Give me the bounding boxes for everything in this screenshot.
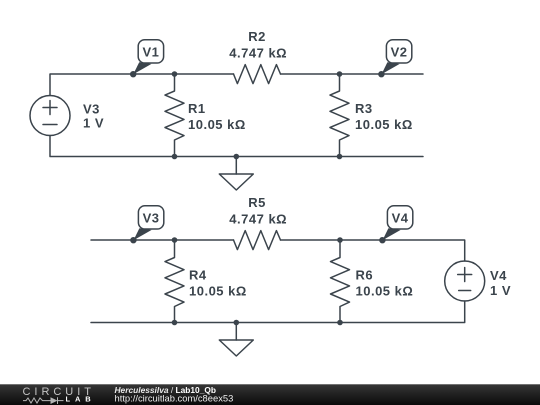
wire top rail left (V3 to R2) <box>50 74 234 96</box>
junction R1 top <box>172 71 178 77</box>
junction ground1 <box>234 154 240 160</box>
wire bottom rail circuit1 <box>50 136 423 157</box>
node V1 dot <box>130 71 136 77</box>
node V4 dot <box>379 237 385 243</box>
ground circuit1 <box>235 157 237 175</box>
resistor R5 <box>234 231 281 250</box>
wire top rail circuit2 left <box>91 239 234 241</box>
svg-text:http://circuitlab.com/c8eex53: http://circuitlab.com/c8eex53 <box>115 392 234 403</box>
node V3 probe flag <box>138 206 163 229</box>
logo diode triangle <box>51 397 58 404</box>
svg-text:R3: R3 <box>355 101 373 116</box>
resistor R3 <box>330 74 349 157</box>
node V2 dot <box>378 71 384 77</box>
svg-text:V1: V1 <box>142 45 159 60</box>
svg-text:10.05 kΩ: 10.05 kΩ <box>356 283 414 298</box>
node V1 probe flag <box>138 40 163 63</box>
junction R4 bottom <box>172 320 178 326</box>
svg-text:LAB: LAB <box>66 395 92 404</box>
ground circuit2 <box>235 323 237 341</box>
svg-text:V4: V4 <box>392 211 409 226</box>
node V3 dot <box>130 237 136 243</box>
svg-text:1 V: 1 V <box>83 115 104 130</box>
logo resistor-diode line <box>23 397 64 404</box>
svg-text:V2: V2 <box>391 45 408 60</box>
node V4 probe flag <box>387 206 412 229</box>
node V3 pointer wedge <box>134 228 152 240</box>
wire bottom rail circuit2 <box>91 301 465 323</box>
junction R4 top <box>172 237 178 243</box>
junction ground2 <box>234 320 240 326</box>
node V2 pointer wedge <box>382 62 400 74</box>
svg-text:V3: V3 <box>143 211 160 226</box>
junction R3 bottom <box>337 154 343 160</box>
junction R6 top <box>337 237 343 243</box>
svg-text:4.747 kΩ: 4.747 kΩ <box>229 211 287 226</box>
svg-text:R5: R5 <box>248 195 266 210</box>
svg-text:R1: R1 <box>188 101 206 116</box>
resistor R2 <box>234 65 281 84</box>
svg-text:R6: R6 <box>356 268 374 283</box>
voltage source V3 <box>30 96 70 136</box>
svg-text:10.05 kΩ: 10.05 kΩ <box>188 117 246 132</box>
voltage source V4 <box>445 261 485 301</box>
svg-text:1 V: 1 V <box>490 283 511 298</box>
junction R3 top <box>337 71 343 77</box>
svg-text:V4: V4 <box>490 268 507 283</box>
wire top rail circuit2 right <box>281 240 465 261</box>
svg-text:R4: R4 <box>189 268 207 283</box>
node V1 pointer wedge <box>133 62 151 74</box>
svg-text:4.747 kΩ: 4.747 kΩ <box>229 45 287 60</box>
junction R1 bottom <box>172 154 178 160</box>
node V2 probe flag <box>386 40 411 63</box>
resistor R1 <box>165 74 184 157</box>
svg-text:V3: V3 <box>83 102 100 117</box>
wire top rail right (R2 to end) <box>281 73 424 75</box>
node V4 pointer wedge <box>383 228 401 240</box>
junction R6 bottom <box>337 320 343 326</box>
resistor R6 <box>331 240 350 323</box>
resistor R4 <box>165 240 184 323</box>
svg-text:R2: R2 <box>248 29 266 44</box>
svg-text:10.05 kΩ: 10.05 kΩ <box>189 283 247 298</box>
svg-text:10.05 kΩ: 10.05 kΩ <box>355 117 413 132</box>
